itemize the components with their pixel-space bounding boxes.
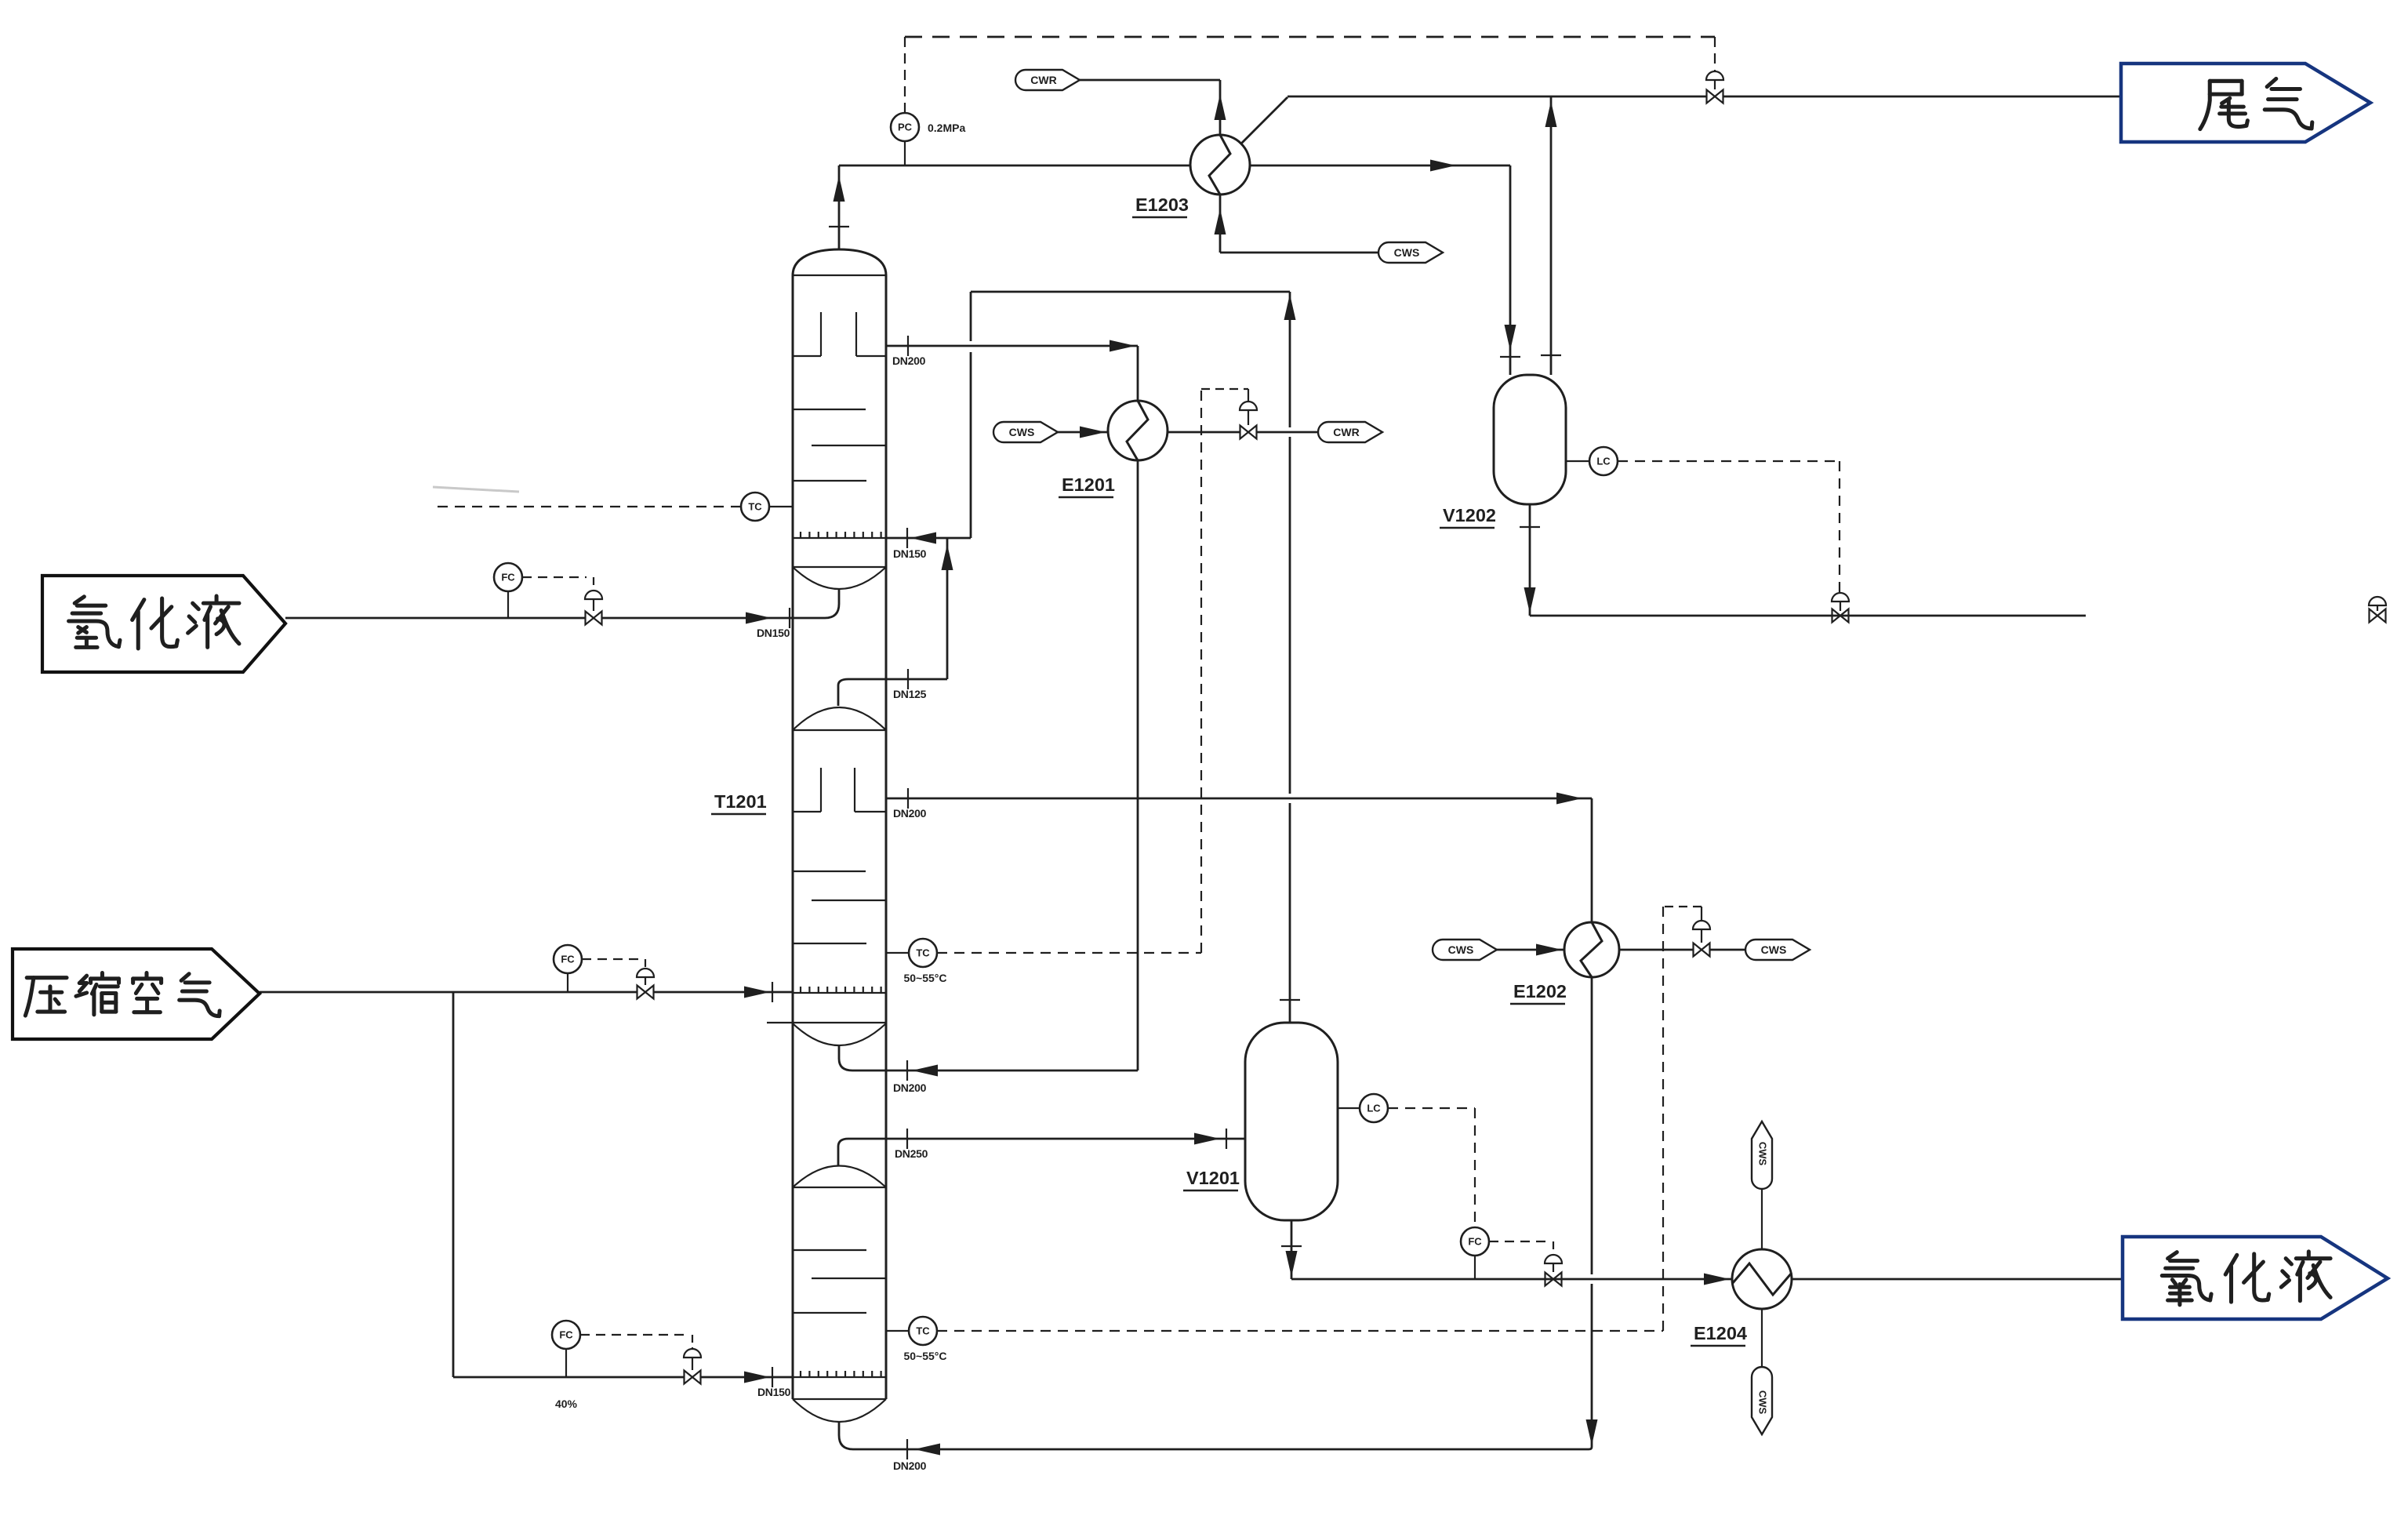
wire V1201 bottom outlet — [1291, 1220, 1293, 1279]
wire FC1 stem — [507, 591, 509, 618]
control valve feed1 — [586, 612, 602, 625]
control valve actuator feed3 — [684, 1349, 701, 1358]
tag CWR top — [1015, 70, 1080, 90]
wire TC3 to column — [886, 1330, 909, 1332]
arrow E1201 return into column — [912, 1065, 938, 1077]
arrow up to CWR — [1215, 94, 1226, 120]
arrow down V1202 outlet — [1524, 587, 1536, 613]
dashed FC1 to valve — [522, 576, 587, 578]
svg-text:DN125: DN125 — [893, 688, 927, 700]
svg-text:FC: FC — [559, 1329, 573, 1341]
section 3 top dome — [793, 1166, 886, 1188]
source label 氢化液 (hydrogenated liquid) — [42, 576, 285, 672]
section 2 inlet distributor — [793, 811, 821, 812]
section 1 trays — [793, 409, 866, 410]
svg-text:CWS: CWS — [1757, 1390, 1769, 1415]
valve actuator oxidized liquid — [1545, 1255, 1562, 1263]
svg-text:DN200: DN200 — [893, 1459, 927, 1472]
section 2 top dome — [793, 707, 886, 730]
wire CWS to E1203 bottom — [1219, 194, 1222, 253]
arrow CWS E1202 — [1536, 944, 1562, 956]
svg-text:DN200: DN200 — [893, 807, 927, 820]
flange tick V1201 bottom — [1281, 1245, 1302, 1247]
section 3 bottom head — [793, 1398, 886, 1400]
wire PC stem — [904, 142, 906, 165]
wire FC3 stem — [1474, 1256, 1476, 1279]
arrow up CWS into E1203 — [1215, 209, 1226, 234]
svg-text:LC: LC — [1367, 1103, 1381, 1114]
wire FC2 stem — [567, 973, 568, 992]
label T1201 — [711, 791, 767, 814]
svg-text:50~55°C: 50~55°C — [903, 1350, 946, 1362]
svg-text:CWS: CWS — [1394, 246, 1420, 259]
wire TC1 to column — [769, 506, 793, 507]
flow arrow to E1202 — [1556, 793, 1582, 805]
arrow into E1204 — [1704, 1274, 1730, 1285]
dashed PC riser — [904, 37, 906, 112]
flange tick DN200 sec2 — [907, 788, 909, 809]
dashed TC3 riser — [1662, 907, 1664, 1331]
flange tick DN200 return — [906, 1060, 908, 1081]
section 1 inlet distributor — [793, 355, 821, 357]
flange tick V1202 vapor — [1541, 354, 1561, 356]
arrow return into column bottom — [914, 1444, 940, 1456]
wire V1202 vapor riser to tail gas line — [1550, 96, 1553, 375]
dashed PC signal line (top) — [905, 36, 1715, 38]
wire E1201 process vertical — [1137, 346, 1139, 401]
temperature controller TC section2 — [909, 939, 937, 967]
arrow feed3 — [744, 1372, 770, 1383]
dashed LC2 signal — [1618, 460, 1840, 462]
wire TC2 to column — [886, 952, 909, 954]
control valve oxidized liquid — [1545, 1273, 1562, 1286]
tag CWS from E1202 — [1745, 940, 1810, 960]
svg-text:FC: FC — [561, 954, 575, 965]
wire E1203 gas bypass diagonal to tail-gas line — [1241, 97, 1288, 144]
flange tick feed3 — [772, 1367, 773, 1387]
wire E1203 outlet to V1202 — [1509, 165, 1512, 375]
label E1204 — [1691, 1323, 1747, 1346]
section 1 chimney tray with ticks — [793, 537, 886, 539]
svg-text:DN200: DN200 — [893, 1081, 927, 1094]
heat exchanger E1201 — [1108, 401, 1168, 460]
svg-text:CWS: CWS — [1757, 1142, 1769, 1166]
wire E1204 CW top — [1761, 1189, 1763, 1249]
arrow CWS E1201 — [1080, 427, 1106, 438]
column vent line to E1203 — [838, 165, 841, 249]
arrow down into V1202 — [1505, 325, 1516, 351]
tail gas control valve — [1707, 90, 1723, 104]
wire V1201 top vapor riser (x=1645, crossing breaks) — [1289, 292, 1291, 427]
dashed TC2 jog to E1201 valve — [1201, 388, 1248, 390]
wire E1204 CW bottom — [1761, 1309, 1763, 1367]
arrow up V1202 vapor — [1545, 101, 1557, 127]
tail gas valve actuator — [1706, 71, 1723, 80]
arrow down E1202 outlet — [1586, 1419, 1598, 1445]
source label 压缩空气 (compressed air) — [13, 949, 260, 1039]
svg-text:T1201: T1201 — [714, 791, 767, 812]
svg-text:E1203: E1203 — [1135, 194, 1189, 215]
wire E1203 top to CWR — [1219, 80, 1222, 135]
wire E1201 to CWR — [1168, 431, 1318, 434]
wire hydrogenation feed into sec1 dish — [825, 589, 839, 618]
flange tick V1201 top — [1280, 999, 1300, 1001]
arrow feed1 — [746, 612, 772, 624]
lone valve at right edge — [2369, 597, 2386, 605]
pressure controller PC — [891, 113, 919, 141]
arrow up on DN125 riser — [942, 544, 953, 570]
dashed signal from TC1 (left) — [438, 506, 741, 507]
level controller LC V1201 — [1360, 1094, 1388, 1122]
svg-text:PC: PC — [898, 122, 913, 133]
svg-text:FC: FC — [1468, 1236, 1482, 1248]
wire DN125 vapor line from sec2 dome — [838, 679, 848, 706]
wire E1201 return into sec2 dish — [839, 1045, 852, 1070]
flow controller FC oxidized liquid — [1461, 1227, 1489, 1256]
flow arrow on DN200 line — [1110, 340, 1135, 352]
flow controller FC feed1 — [494, 563, 522, 591]
temperature controller TC section3 — [909, 1317, 937, 1345]
wire V1201 vapor header at y=372 — [971, 291, 1290, 293]
wire from y372 header down to DN150 junction (with crossing break) — [970, 292, 972, 341]
column T1201 shell — [792, 275, 794, 1399]
sink label 尾气 (tail gas) — [2121, 64, 2370, 142]
wire E1202 process vertical — [1591, 798, 1593, 922]
dashed LC2 drop — [1839, 461, 1840, 593]
section 1 bottom dished head — [767, 1022, 886, 1023]
wire CWS to E1201 — [1058, 431, 1108, 434]
label E1201 — [1059, 474, 1115, 497]
arrow into column DN150 — [910, 533, 936, 544]
faint smudge near TC1 — [433, 487, 519, 492]
svg-text:DN150: DN150 — [757, 1386, 791, 1398]
svg-text:CWS: CWS — [1448, 943, 1474, 956]
wire CWR line — [1080, 79, 1220, 82]
control valve actuator feed2 — [637, 969, 654, 977]
flange tick on vent line — [829, 226, 849, 227]
wire E1202 CW outlet — [1619, 949, 1745, 951]
svg-text:DN150: DN150 — [893, 547, 927, 560]
control valve V1202 outlet — [1832, 609, 1849, 623]
svg-text:CWS: CWS — [1761, 943, 1787, 956]
heat exchanger E1204 — [1732, 1249, 1792, 1309]
wire CWS to E1202 — [1497, 949, 1564, 951]
arrow down V1201 outlet — [1286, 1251, 1298, 1277]
arrow feed2 — [744, 987, 770, 998]
svg-text:CWS: CWS — [1009, 426, 1035, 438]
svg-text:TC: TC — [916, 1325, 930, 1337]
flange tick feed2 — [772, 982, 773, 1002]
section 2 chimney tray with ticks + air feed2 — [793, 992, 886, 994]
dashed TC3 signal — [937, 1330, 1663, 1332]
svg-text:V1202: V1202 — [1443, 505, 1496, 525]
dashed LC1 signal — [1388, 1107, 1475, 1109]
dashed signal to tail gas valve — [1714, 37, 1716, 71]
arrow up on vent line — [834, 176, 845, 202]
wire stem E1202 valve — [1701, 907, 1702, 921]
vessel V1201 — [1245, 1023, 1338, 1220]
svg-text:FC: FC — [501, 572, 515, 583]
flange tick V1202 inlet — [1500, 356, 1520, 358]
wire DN250 line from sec3 dome to V1201 — [838, 1139, 848, 1166]
wire FC4 stem — [565, 1349, 567, 1377]
arrow up on V1201 vapor riser — [1284, 294, 1296, 320]
flange tick V1202 bottom — [1520, 526, 1540, 528]
tag CWS to E1202 — [1433, 940, 1497, 960]
label V1202 — [1440, 505, 1496, 528]
svg-text:E1202: E1202 — [1513, 981, 1567, 1001]
svg-text:E1201: E1201 — [1062, 474, 1115, 495]
valve E1202 CW outlet — [1694, 943, 1710, 957]
svg-text:DN150: DN150 — [757, 627, 790, 639]
wire air branch down — [452, 992, 455, 1377]
svg-text:LC: LC — [1596, 456, 1611, 467]
arrow E1203 outlet — [1430, 160, 1456, 172]
section 2 bottom dished head — [793, 1023, 886, 1045]
arrow into V1201 — [1194, 1133, 1220, 1145]
valve actuator E1202 CW — [1693, 921, 1710, 929]
svg-text:CWR: CWR — [1333, 426, 1359, 438]
dashed FC2 to valve — [582, 958, 638, 960]
heat exchanger E1202 — [1564, 922, 1619, 977]
wire DN200 line from section-1 top to E1201 — [886, 345, 1138, 347]
wire LC2 to vessel — [1566, 460, 1589, 462]
flange tick DN125 — [907, 669, 909, 689]
svg-text:TC: TC — [748, 501, 762, 513]
control valve feed3 — [685, 1371, 701, 1384]
label E1202 — [1510, 981, 1567, 1004]
flow controller FC feed3 — [552, 1321, 580, 1349]
svg-text:TC: TC — [916, 947, 930, 959]
tag CWS E1204 bottom — [1752, 1367, 1772, 1434]
column T1201 top head — [793, 249, 886, 275]
wire V1202 bottom outlet — [1529, 504, 1531, 616]
dashed FC3 to valve — [1489, 1241, 1546, 1242]
wire DN150 return into column above tray — [886, 537, 971, 540]
vessel V1202 — [1494, 375, 1566, 504]
level controller LC V1202 — [1589, 447, 1618, 475]
section 3 trays — [793, 1249, 866, 1251]
wire riser from DN125 to DN150 junction — [946, 538, 949, 679]
dashed LC1 drop to FC — [1474, 1108, 1476, 1227]
wire tail gas line — [1288, 96, 2121, 98]
flange tick DN200 bottom return — [906, 1439, 908, 1459]
flange tick DN250 — [906, 1129, 908, 1149]
dashed FC4 to valve — [580, 1334, 685, 1336]
svg-text:DN250: DN250 — [895, 1147, 928, 1160]
dashed TC2 signal — [937, 952, 1201, 954]
svg-text:E1204: E1204 — [1694, 1323, 1747, 1343]
label E1203 — [1132, 194, 1189, 217]
dashed jog to E1202 valve — [1663, 906, 1702, 907]
svg-text:V1201: V1201 — [1186, 1168, 1240, 1188]
svg-text:DN200: DN200 — [892, 354, 926, 367]
wire oxidized liquid line to E1204 — [1291, 1278, 1732, 1281]
flange tick DN150 — [906, 528, 908, 548]
temperature controller TC section1 — [741, 493, 769, 521]
svg-text:CWR: CWR — [1030, 74, 1056, 86]
sink label 氧化液 (oxidized liquid) — [2123, 1237, 2388, 1319]
wire main overhead line to E1203 — [839, 165, 1510, 167]
section 2 trays — [793, 871, 866, 872]
tag CWS to E1201 — [993, 422, 1058, 442]
control valve actuator feed1 — [585, 591, 602, 599]
tag CWS E1204 top — [1752, 1121, 1772, 1189]
label V1201 — [1183, 1168, 1240, 1190]
svg-text:50~55°C: 50~55°C — [903, 972, 946, 984]
dashed TC2 riser — [1200, 389, 1202, 953]
wire column bottom outlet pipe — [839, 1422, 853, 1449]
wire V1202 outlet header — [1530, 615, 2086, 617]
control valve feed2 — [637, 986, 654, 999]
tag CWR from E1201 — [1318, 422, 1382, 442]
wire LC1 to vessel — [1338, 1107, 1360, 1109]
tag CWS to E1203 — [1378, 242, 1443, 263]
wire DN200 line from section-2 to E1202 — [886, 798, 1592, 800]
svg-text:0.2MPa: 0.2MPa — [928, 122, 965, 134]
valve E1201 CW outlet — [1240, 426, 1257, 439]
svg-text:40%: 40% — [555, 1398, 578, 1410]
flange tick DN200 — [907, 336, 909, 356]
flow controller FC feed2 — [554, 945, 582, 973]
wire stem E1201 valve — [1248, 389, 1249, 402]
wire E1204 outlet to oxidized liquid label — [1792, 1278, 2123, 1281]
section 3 chimney tray with ticks + air feed3 — [793, 1376, 886, 1378]
heat exchanger E1203 — [1190, 135, 1250, 194]
valve actuator E1201 CW — [1240, 402, 1257, 410]
valve actuator V1202 outlet — [1832, 593, 1849, 602]
flange tick V1201 inlet — [1226, 1129, 1227, 1149]
flange tick feed1 — [789, 608, 790, 628]
